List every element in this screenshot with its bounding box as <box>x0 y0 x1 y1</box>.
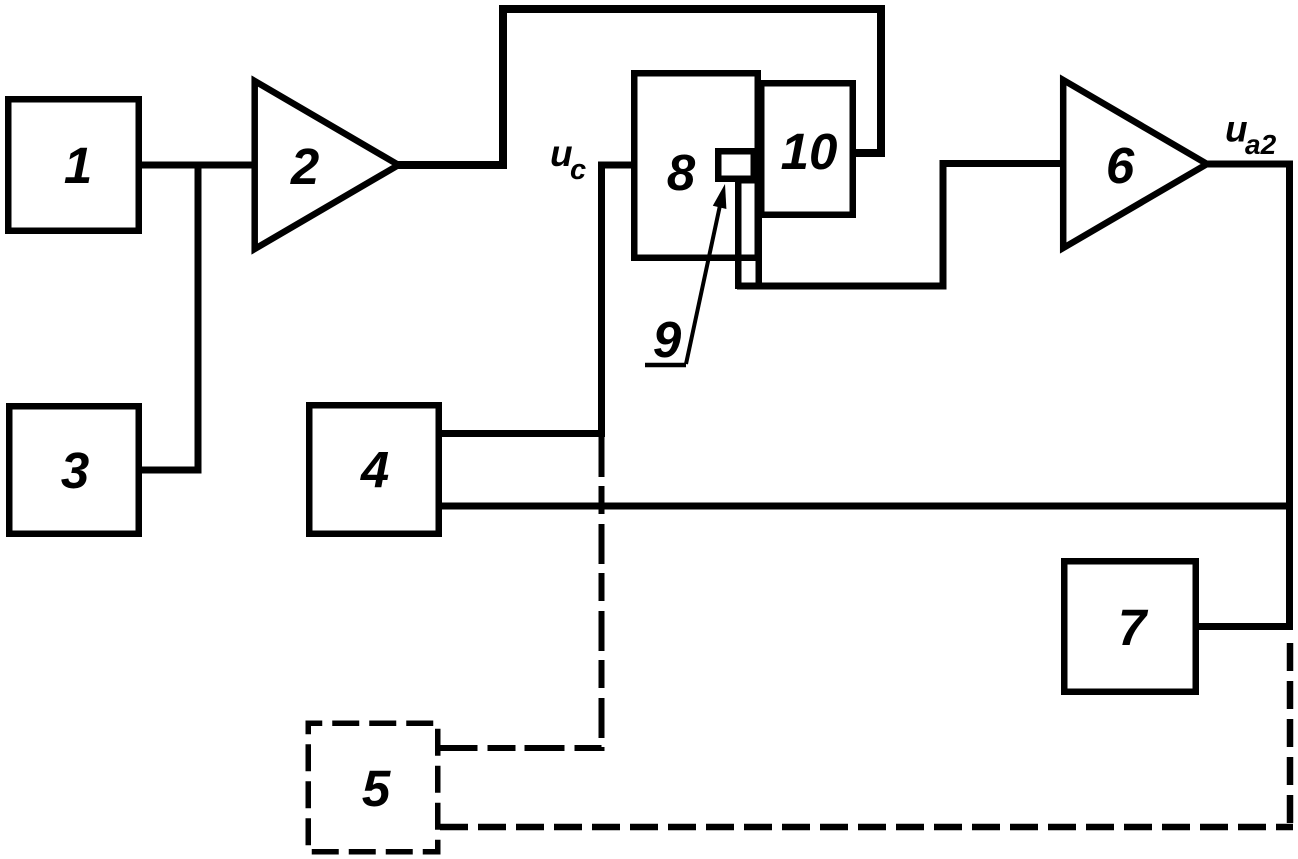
dashed wire right bus vertical segment <box>1287 643 1294 827</box>
wire u_c corner into block8 <box>602 165 633 433</box>
element 9 tab on block 8 <box>718 151 754 179</box>
node u_c label <box>550 133 586 186</box>
block 3 <box>9 406 139 534</box>
wire block1 to amplifier2 <box>141 162 256 169</box>
svg-text:1: 1 <box>64 137 92 194</box>
svg-text:a2: a2 <box>1245 129 1277 160</box>
svg-text:7: 7 <box>1118 599 1149 656</box>
dashed wire block5 lower port to right bus <box>440 824 1293 831</box>
dashed wire u_c line down to block5 upper port <box>440 437 602 748</box>
block 4 <box>309 405 439 534</box>
svg-text:4: 4 <box>360 441 389 498</box>
svg-text:c: c <box>570 154 586 186</box>
block 8 <box>634 73 758 258</box>
svg-text:10: 10 <box>781 123 838 180</box>
wire amplifier2 output and top feedback bus to block10 <box>398 9 881 165</box>
wire block7 output to right bus <box>1196 623 1293 630</box>
svg-text:5: 5 <box>362 760 391 817</box>
svg-text:8: 8 <box>667 144 696 201</box>
svg-text:9: 9 <box>653 311 682 368</box>
svg-text:2: 2 <box>290 138 319 195</box>
svg-text:3: 3 <box>61 442 89 499</box>
wire amplifier6 output down right bus <box>1207 164 1290 630</box>
label 9 with underline <box>645 311 686 368</box>
wire block4 upper output to u_c line <box>439 430 605 437</box>
block 1 <box>8 99 139 231</box>
svg-text:6: 6 <box>1106 137 1135 194</box>
block 7 <box>1064 561 1196 692</box>
wire from element9 bottom to amplifier6 input <box>737 164 1064 287</box>
block 5 dashed <box>308 723 438 852</box>
block 10 <box>761 83 853 215</box>
amplifier 6 <box>1063 80 1207 248</box>
leader arrow from label 9 to tab <box>686 184 726 364</box>
element 9 plunger rectangle <box>738 180 759 286</box>
amplifier 2 <box>255 81 399 249</box>
node u_a2 label <box>1225 109 1277 161</box>
wire block4 lower output across to right bus <box>439 503 1290 510</box>
wire junction down to block3 <box>141 165 198 470</box>
